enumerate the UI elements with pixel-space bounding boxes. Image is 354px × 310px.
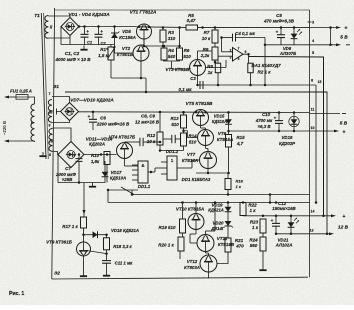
capacitor C7 bbox=[78, 155, 80, 159]
svg-text:VT4 КТ817Б: VT4 КТ817Б bbox=[109, 135, 136, 140]
transistor VT11 bbox=[197, 235, 214, 252]
capacitor C4 bbox=[232, 34, 234, 42]
wire primary top bbox=[30, 97, 35, 104]
wire R12 bbox=[159, 112, 161, 132]
capacitor C1 bbox=[84, 27, 86, 35]
wire plus5 rail bbox=[137, 26, 187, 29]
wire y173 bbox=[196, 172, 229, 174]
svg-text:Э1: Э1 bbox=[53, 84, 59, 89]
svg-text:DD1.1: DD1.1 bbox=[138, 184, 151, 189]
wire minus12 line bbox=[276, 233, 330, 235]
capacitor C2 bbox=[98, 27, 100, 35]
wire R1 top bbox=[110, 45, 112, 48]
resistor R19 bbox=[180, 219, 186, 233]
svg-text:5 В: 5 В bbox=[340, 35, 348, 41]
svg-text:R17 1 к: R17 1 к bbox=[62, 224, 78, 229]
svg-text:VD7—VD10 КД202А: VD7—VD10 КД202А bbox=[70, 98, 113, 103]
wire winding IV top bbox=[53, 128, 72, 142]
svg-text:АЛ102А: АЛ102А bbox=[275, 243, 293, 248]
svg-text:VT3 КТ814Г: VT3 КТ814Г bbox=[165, 67, 191, 72]
svg-text:14: 14 bbox=[311, 210, 315, 214]
wire ground return y92 bbox=[65, 92, 327, 234]
capacitor C6 bbox=[92, 112, 94, 120]
wire C3 line bbox=[197, 84, 316, 86]
svg-text:12 мк×16 В: 12 мк×16 В bbox=[135, 120, 160, 125]
output plus 5V top bbox=[310, 27, 338, 29]
svg-text:КД202Р: КД202Р bbox=[279, 141, 295, 146]
svg-text:+: + bbox=[271, 218, 274, 223]
transistor VT5 bbox=[193, 110, 209, 126]
wire winding III top bbox=[52, 97, 70, 103]
svg-text:+: + bbox=[343, 214, 346, 220]
shield ground bbox=[42, 152, 44, 156]
svg-text:470: 470 bbox=[235, 244, 244, 249]
capacitor C3 bbox=[199, 81, 201, 89]
svg-text:150мк×16В: 150мк×16В bbox=[272, 206, 296, 211]
svg-text:1,8к: 1,8к bbox=[91, 159, 100, 164]
capacitor C5 bbox=[280, 28, 282, 35]
svg-text:R9: R9 bbox=[207, 64, 213, 69]
wire right bus bbox=[309, 10, 311, 277]
resistor R15 bbox=[226, 135, 232, 148]
capacitor C10 bbox=[278, 113, 280, 121]
resistor R5 bbox=[186, 25, 198, 30]
diode VD19 bbox=[227, 203, 229, 217]
wire R17 bbox=[83, 183, 85, 218]
wire VT12 emitter bbox=[208, 272, 210, 278]
svg-text:×25В: ×25В bbox=[62, 177, 73, 182]
svg-text:Рис. 1: Рис. 1 bbox=[9, 291, 24, 297]
junction C10 VD16 bbox=[278, 111, 281, 114]
svg-text:VD1 - VD4 КД243А: VD1 - VD4 КД243А bbox=[68, 12, 110, 17]
transistor VT3 bbox=[190, 60, 206, 76]
svg-text:7: 7 bbox=[238, 47, 240, 51]
svg-text:КД521А: КД521А bbox=[208, 208, 224, 213]
svg-text:R21: R21 bbox=[235, 238, 244, 243]
svg-text:2: 2 bbox=[230, 49, 232, 53]
svg-text:C4 0,1 мк: C4 0,1 мк bbox=[235, 31, 255, 36]
wire primary bottom bbox=[34, 141, 36, 142]
resistor R16 bbox=[225, 179, 231, 190]
op-amp DA1 output wire bbox=[243, 53, 249, 55]
wire VT10 collector bbox=[195, 203, 197, 214]
resistor R18 bbox=[104, 238, 110, 250]
svg-text:7: 7 bbox=[49, 92, 51, 96]
wire VT5 emitter to VT6 bbox=[200, 126, 202, 129]
svg-text:C7: C7 bbox=[65, 166, 71, 171]
mains input arrows bbox=[8, 96, 13, 98]
junction mid rail bbox=[92, 111, 95, 114]
svg-text:1 к: 1 к bbox=[252, 225, 259, 230]
terminal tick 8 bbox=[314, 84, 318, 86]
resistor R22 bbox=[240, 203, 246, 216]
transformer T1 winding IV bbox=[49, 129, 53, 152]
svg-text:9: 9 bbox=[49, 124, 51, 128]
wire R9 bottom bbox=[217, 73, 219, 85]
resistor R13 bbox=[181, 115, 187, 128]
LED VD6 bbox=[293, 28, 295, 45]
wire R4 R6 tops bbox=[163, 46, 165, 48]
svg-text:510: 510 bbox=[189, 140, 197, 145]
svg-text:R15: R15 bbox=[236, 135, 245, 140]
thyristor VD16 bbox=[293, 113, 295, 132]
wire VT2 emitter bbox=[140, 61, 142, 78]
svg-text:VT2: VT2 bbox=[122, 46, 131, 51]
transistor VT10 bbox=[188, 214, 204, 230]
wire R18 bottom bbox=[106, 250, 108, 254]
svg-text:DD1.2: DD1.2 bbox=[166, 149, 179, 154]
wire R23 R24 bbox=[262, 233, 264, 237]
diode VD17 bbox=[104, 166, 106, 183]
resistor R4 bbox=[161, 48, 167, 60]
svg-text:310: 310 bbox=[168, 36, 176, 41]
wire bridge3 right bbox=[84, 154, 117, 156]
svg-text:+: + bbox=[274, 115, 277, 120]
svg-text:R7: R7 bbox=[204, 30, 210, 35]
svg-text:+: + bbox=[73, 153, 76, 158]
svg-text:R19 510: R19 510 bbox=[158, 225, 176, 230]
resistor R9 bbox=[215, 63, 220, 72]
svg-text:2200 мкФ×16 В: 2200 мкФ×16 В bbox=[96, 122, 130, 127]
transistor VT9 bbox=[77, 242, 91, 256]
LED VD21 bbox=[290, 216, 292, 234]
svg-text:R13: R13 bbox=[170, 116, 179, 121]
svg-text:560: 560 bbox=[250, 243, 258, 248]
resistor R24 bbox=[260, 237, 266, 251]
wire node y46 bbox=[144, 45, 180, 47]
wire VT1 base to VT2 collector bbox=[143, 39, 145, 45]
wire VT3 collector bbox=[197, 51, 199, 60]
svg-text:C8, C9: C8, C9 bbox=[141, 114, 156, 119]
resistor R20 bbox=[178, 237, 184, 251]
svg-text:C10: C10 bbox=[262, 112, 271, 117]
logic gate DD1.1 bbox=[138, 161, 148, 183]
svg-text:4700 мк: 4700 мк bbox=[255, 118, 273, 123]
bridge rectifier VD7-VD10 bbox=[61, 103, 79, 121]
svg-text:R22: R22 bbox=[248, 203, 257, 208]
wire pin3 bbox=[217, 56, 219, 63]
wire bridge3 left bbox=[58, 155, 79, 183]
svg-text:R4: R4 bbox=[168, 48, 174, 53]
diode VD18 bbox=[84, 234, 107, 236]
svg-text:C5: C5 bbox=[276, 13, 282, 18]
svg-text:КС156А: КС156А bbox=[119, 35, 136, 40]
svg-text:C3: C3 bbox=[190, 76, 196, 81]
ground VT9 bbox=[83, 272, 85, 276]
svg-text:0,1 мк: 0,1 мк bbox=[178, 87, 192, 92]
transistor VT12 bbox=[200, 255, 217, 272]
op-amp DA1 bbox=[233, 48, 244, 62]
wire feedback vertical bbox=[264, 38, 266, 86]
transistor VT6 bbox=[198, 130, 214, 146]
wire VT4 collector bbox=[124, 141, 126, 144]
svg-text:15: 15 bbox=[318, 80, 322, 84]
svg-text:510: 510 bbox=[171, 122, 179, 127]
wire R10 bottom bbox=[106, 165, 108, 183]
svg-text:VT7: VT7 bbox=[187, 152, 196, 157]
resistor R7 bbox=[212, 30, 218, 43]
capacitor C11 bbox=[106, 254, 108, 260]
svg-text:8: 8 bbox=[49, 153, 51, 157]
wire R3 bbox=[162, 28, 164, 31]
transformer T1 winding III bbox=[48, 100, 52, 123]
wire y190 to DD11 bbox=[137, 180, 139, 190]
wire VT3 base bbox=[206, 67, 227, 69]
resistor R2 bbox=[248, 63, 253, 72]
wire output link top bbox=[330, 28, 332, 45]
svg-text:C1: C1 bbox=[87, 40, 93, 45]
svg-text:R23: R23 bbox=[250, 220, 259, 225]
svg-text:+: + bbox=[343, 130, 346, 136]
svg-text:1 к: 1 к bbox=[249, 208, 256, 213]
diode VD15 bbox=[228, 113, 230, 132]
svg-text:КТ814А: КТ814А bbox=[182, 158, 198, 163]
svg-text:Д814Г: Д814Г bbox=[210, 226, 224, 231]
junction dots top rail bbox=[83, 25, 86, 28]
resistor R14 bbox=[181, 133, 187, 146]
svg-text:VT9 КТ361Б: VT9 КТ361Б bbox=[46, 240, 73, 245]
wire R1 bottom bbox=[110, 60, 112, 78]
svg-text:4,7: 4,7 bbox=[236, 141, 244, 146]
wire R21 bottom bbox=[217, 252, 228, 264]
ground R24 bbox=[262, 266, 264, 270]
svg-text:510: 510 bbox=[183, 54, 191, 59]
wire diagonal DD1 out bbox=[121, 187, 134, 195]
svg-text:R10: R10 bbox=[91, 153, 100, 158]
svg-text:11: 11 bbox=[311, 108, 315, 112]
wire DD11 out to DD12 bbox=[154, 168, 156, 172]
svg-text:R2 1 к: R2 1 к bbox=[257, 70, 271, 75]
svg-text:R3: R3 bbox=[168, 30, 174, 35]
svg-text:10 к: 10 к bbox=[147, 139, 156, 144]
svg-text:КД510А: КД510А bbox=[212, 119, 227, 124]
wire plus12 line bbox=[243, 215, 332, 217]
transformer T1 core bbox=[41, 13, 46, 159]
svg-text:VD18 КД521А: VD18 КД521А bbox=[111, 228, 139, 233]
svg-text:470 мкФ×6,3В: 470 мкФ×6,3В bbox=[263, 19, 295, 24]
svg-text:VT12: VT12 bbox=[187, 259, 198, 264]
bridge rectifier VD11-VD14 bbox=[58, 142, 84, 168]
svg-text:+: + bbox=[276, 30, 279, 35]
svg-text:КД202А: КД202А bbox=[89, 142, 105, 147]
svg-text:+: + bbox=[86, 29, 89, 34]
resistor R6 bbox=[177, 48, 183, 60]
wire R22 bottom bbox=[242, 215, 244, 217]
svg-text:10: 10 bbox=[311, 126, 315, 130]
svg-text:КТ819В: КТ819В bbox=[218, 242, 235, 247]
ground C7 bbox=[92, 183, 94, 187]
wire bottom bus bbox=[52, 277, 308, 279]
svg-text:R16: R16 bbox=[236, 179, 244, 184]
svg-text:Э2: Э2 bbox=[54, 271, 60, 276]
wire y195 left link bbox=[131, 190, 133, 195]
wire bus y195 bbox=[132, 194, 310, 196]
svg-text:1,5 м: 1,5 м bbox=[98, 53, 110, 58]
wire VT2 base bbox=[114, 45, 116, 54]
wire VT10 emitter to VT11 base bbox=[195, 230, 197, 235]
capacitor C12 bbox=[275, 216, 277, 224]
diode VD20 bbox=[227, 216, 229, 231]
svg-text:540: 540 bbox=[168, 54, 176, 59]
wire VD18 right bbox=[106, 235, 108, 238]
wire raw plus rail bbox=[79, 26, 137, 28]
svg-text:R18 3,3 к: R18 3,3 к bbox=[113, 244, 132, 249]
svg-text:VD15: VD15 bbox=[214, 114, 225, 119]
junction dots R5 rail bbox=[178, 26, 181, 29]
svg-text:R20 1 к: R20 1 к bbox=[158, 243, 174, 248]
capacitor C9 bbox=[171, 135, 173, 143]
resistor R3 bbox=[160, 30, 166, 42]
transistor VT4 bbox=[117, 143, 133, 159]
svg-text:R6: R6 bbox=[184, 48, 190, 53]
resistor R10 bbox=[104, 152, 110, 165]
svg-text:VD5: VD5 bbox=[122, 29, 131, 34]
wire mid plus rail bbox=[79, 111, 310, 114]
svg-text:R12: R12 bbox=[147, 133, 156, 138]
svg-text:КД510А: КД510А bbox=[110, 176, 126, 181]
capacitor C8 bbox=[139, 138, 141, 146]
svg-text:VD20: VD20 bbox=[213, 221, 225, 226]
svg-text:КТ803А: КТ803А bbox=[184, 265, 200, 270]
wire R13 R14 bbox=[183, 112, 185, 115]
svg-text:T1: T1 bbox=[34, 13, 40, 19]
wire y190 line bbox=[108, 189, 138, 191]
resistor R23 bbox=[260, 219, 266, 233]
wire left bus bbox=[52, 8, 55, 279]
wire VT6 base bbox=[184, 131, 198, 138]
svg-text:C6: C6 bbox=[100, 116, 106, 121]
svg-text:5: 5 bbox=[312, 51, 314, 55]
wire R7 bbox=[214, 28, 216, 31]
svg-text:2,2к: 2,2к bbox=[200, 53, 210, 58]
zener VD5 bbox=[114, 27, 116, 45]
svg-text:+: + bbox=[88, 114, 91, 119]
svg-text:R24: R24 bbox=[249, 238, 258, 243]
wire DD12 to VT7 bbox=[183, 167, 192, 169]
svg-text:12 В: 12 В bbox=[338, 225, 349, 231]
wire winding II top bbox=[48, 15, 70, 17]
wire terminal4 line bbox=[265, 44, 310, 46]
svg-text:C1, C2: C1, C2 bbox=[65, 51, 80, 56]
svg-text:VD17: VD17 bbox=[111, 170, 123, 175]
svg-text:10 к: 10 к bbox=[202, 36, 211, 41]
bridge rectifier VD1-VD4 bbox=[61, 18, 79, 36]
wire winding II bottom bbox=[48, 37, 70, 39]
svg-text:+: + bbox=[100, 29, 103, 34]
wire VT3 emitter bbox=[197, 76, 199, 86]
fuse FU1 bbox=[16, 95, 28, 100]
wire VT9 emitter bbox=[83, 256, 85, 272]
resistor R17 bbox=[81, 217, 87, 228]
svg-text:3: 3 bbox=[230, 56, 232, 60]
wire VT4 emitter bbox=[124, 159, 126, 167]
svg-text:VT5 КТ815В: VT5 КТ815В bbox=[186, 101, 214, 106]
rheostat R1 bbox=[108, 47, 114, 60]
svg-text:1к: 1к bbox=[208, 70, 214, 75]
logic gate DD1.2 bbox=[167, 156, 177, 180]
resistor R8 bbox=[212, 47, 218, 60]
svg-text:13: 13 bbox=[310, 229, 314, 233]
output minus mid bbox=[310, 113, 341, 115]
wire winding IV bottom bbox=[53, 152, 59, 155]
wire R2 bottom bbox=[250, 73, 252, 85]
svg-text:VT10 КТ815А: VT10 КТ815А bbox=[176, 207, 204, 212]
svg-text:~220 В: ~220 В bbox=[2, 121, 7, 135]
wire winding III bottom bbox=[52, 121, 70, 123]
wire y195 to y202 link bbox=[269, 195, 271, 203]
ground C11 bbox=[106, 272, 108, 276]
wire VT2 collector bbox=[140, 44, 142, 47]
svg-text:3: 3 bbox=[312, 21, 314, 25]
svg-text:×6,3 В: ×6,3 В bbox=[257, 124, 271, 129]
wire terminal5 branch bbox=[249, 57, 324, 217]
wire bottom main bus y202 bbox=[108, 202, 310, 204]
svg-text:6: 6 bbox=[245, 50, 247, 54]
svg-text:4: 4 bbox=[238, 57, 240, 61]
resistor R12 bbox=[157, 132, 163, 145]
transformer T1 primary winding I bbox=[31, 104, 35, 141]
wire VD20 bottom bbox=[227, 231, 229, 238]
svg-text:0,47: 0,47 bbox=[187, 18, 196, 23]
transistor VT7 bbox=[200, 152, 217, 169]
wire R4 R6 bottoms bbox=[163, 60, 165, 61]
svg-text:DA1 К140УД7: DA1 К140УД7 bbox=[251, 63, 281, 68]
output plus mid bbox=[310, 130, 336, 132]
transistor VT2 bbox=[133, 45, 149, 61]
wire y131 mid bbox=[229, 130, 310, 132]
svg-text:VD16: VD16 bbox=[282, 135, 294, 140]
transformer T1 winding II bbox=[45, 16, 49, 39]
wire top bus bbox=[55, 9, 310, 11]
wire VT11 emitter to VT12 bbox=[205, 252, 207, 254]
wire VT11 collector bbox=[205, 231, 207, 235]
svg-text:R1*: R1* bbox=[100, 47, 108, 52]
svg-text:АЛ307Б: АЛ307Б bbox=[279, 51, 296, 56]
transistor VT1 bbox=[137, 24, 152, 39]
svg-text:C2: C2 bbox=[100, 41, 106, 46]
svg-text:VT1 ГТ812А: VT1 ГТ812А bbox=[130, 10, 157, 15]
wire terminal8 line bbox=[315, 85, 317, 203]
terminal tick 4 bbox=[308, 40, 312, 42]
output minus top bbox=[310, 44, 338, 46]
svg-text:FU1 0,25 A: FU1 0,25 A bbox=[10, 89, 32, 94]
wire VT6 emitter to VT7 bbox=[205, 146, 207, 149]
svg-text:4000 мкФ × 10 В: 4000 мкФ × 10 В bbox=[54, 57, 91, 62]
wire R8 bottom bbox=[214, 60, 216, 64]
svg-text:5 В: 5 В bbox=[340, 121, 348, 127]
svg-text:8: 8 bbox=[311, 79, 313, 83]
svg-text:DD1 К155ЛА3: DD1 К155ЛА3 bbox=[182, 177, 211, 182]
resistor R21 bbox=[225, 238, 231, 252]
wire top ground rail bbox=[69, 35, 71, 45]
svg-text:С11 1 мк: С11 1 мк bbox=[115, 260, 134, 265]
ground top bbox=[83, 46, 85, 50]
svg-text:+: + bbox=[345, 26, 348, 32]
wire R15 bbox=[228, 131, 230, 135]
terminal tick 3 bbox=[308, 21, 312, 23]
